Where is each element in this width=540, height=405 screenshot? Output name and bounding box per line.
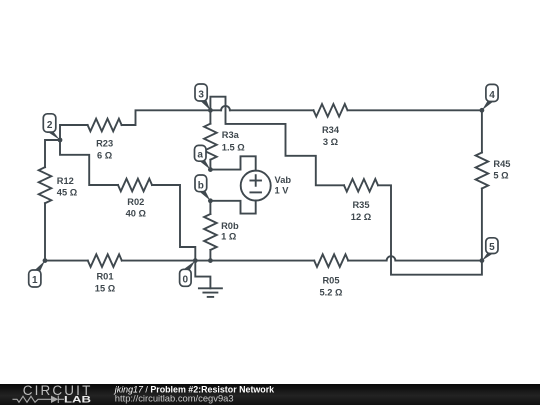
label R23 value (96, 139, 113, 161)
node flag 5 (482, 238, 498, 261)
voltage source Vab (241, 171, 271, 201)
node b junction (208, 198, 213, 203)
node 1 junction (43, 258, 48, 263)
footer bar (0, 384, 540, 405)
resistor R02 (118, 179, 152, 192)
node flag a (195, 145, 211, 169)
wire R05 right to hop (348, 260, 386, 262)
svg-text:1: 1 (32, 275, 38, 286)
wire hop over R35 drop (387, 256, 396, 260)
svg-text:R35: R35 (352, 200, 369, 210)
svg-text:a: a (197, 150, 203, 161)
svg-text:1.5 Ω: 1.5 Ω (222, 142, 246, 152)
node flag 0 (180, 261, 196, 287)
svg-text:5: 5 (489, 242, 495, 253)
resistor R34 (314, 104, 348, 117)
label R05 value (320, 276, 344, 298)
label R01 value (95, 272, 116, 294)
resistor R12 (39, 167, 52, 203)
svg-text:3 Ω: 3 Ω (323, 137, 339, 147)
svg-text:LAB: LAB (64, 395, 91, 405)
resistor R45 (476, 153, 489, 189)
resistor R35 (344, 179, 378, 192)
wire node2 left to R12 top (45, 140, 60, 167)
svg-text:R34: R34 (322, 125, 340, 135)
node flag 4 (482, 84, 498, 110)
svg-text:40 Ω: 40 Ω (126, 208, 147, 218)
label R02 value (126, 197, 147, 218)
node a junction (208, 167, 213, 172)
svg-text:1 Ω: 1 Ω (221, 231, 237, 241)
label R12 value (57, 176, 78, 198)
wire R0b bottom to bottom bus (209, 250, 211, 261)
resistor R01 (88, 254, 122, 267)
wire node2 up to R23 left lead (60, 125, 88, 140)
wire node4 to R45 (481, 110, 483, 152)
svg-text:b: b (198, 180, 204, 191)
svg-text:R45: R45 (493, 159, 510, 169)
node flag b (195, 175, 210, 201)
ground (195, 261, 210, 289)
svg-text:6 Ω: 6 Ω (97, 150, 113, 160)
wire node a to Vab top (210, 156, 255, 170)
svg-text:2: 2 (47, 120, 53, 131)
svg-text:R23: R23 (96, 139, 113, 149)
svg-text:0: 0 (183, 274, 189, 285)
svg-text:5.2 Ω: 5.2 Ω (320, 287, 344, 297)
svg-text:3: 3 (198, 89, 204, 100)
node 5 junction (480, 258, 485, 263)
label R34 value (322, 125, 340, 147)
svg-text:4: 4 (489, 90, 495, 101)
wire node b lead to R0b (209, 201, 211, 214)
wire node2 down to R02 left (60, 140, 118, 185)
node 3 junction (208, 108, 213, 113)
wire R34 to node 4 (348, 109, 482, 111)
svg-text:R0b: R0b (221, 221, 239, 231)
wire R01 to node 0 and R05 (122, 260, 314, 262)
wire R3a bottom to node a (209, 160, 211, 170)
wire node3 stub over bus down to R35 (210, 97, 344, 186)
svg-text:R02: R02 (127, 197, 144, 207)
resistor R3a (204, 124, 217, 160)
wire hop over node3 stub (221, 106, 230, 110)
node 4 junction (480, 108, 485, 113)
node flag 1 (29, 261, 45, 287)
node flag 3 (195, 84, 210, 110)
svg-text:R01: R01 (96, 272, 113, 282)
svg-text:Vab: Vab (275, 175, 292, 185)
wire node3 lead to R3a (209, 110, 211, 123)
svg-text:R05: R05 (322, 276, 339, 286)
svg-text:45 Ω: 45 Ω (57, 188, 78, 198)
wire node1 to R01 (45, 260, 88, 262)
wire hop to node 5 (395, 260, 482, 262)
wire R35 right down around to node 5 (378, 185, 482, 274)
footer logo symbol (13, 396, 65, 403)
resistor R0b (204, 214, 217, 250)
label R3a value (222, 130, 246, 152)
svg-text:1 V: 1 V (275, 185, 290, 195)
wire R12 bottom to node 1 (44, 203, 46, 260)
svg-text:R12: R12 (57, 176, 74, 186)
svg-text:R3a: R3a (222, 130, 240, 140)
resistor R23 (88, 119, 122, 132)
svg-text:12 Ω: 12 Ω (351, 212, 372, 222)
wire hop to R34 (230, 109, 314, 111)
label R0b value (221, 221, 239, 241)
R0b bottom junction (208, 258, 213, 263)
resistor R05 (314, 254, 348, 267)
svg-text:http://circuitlab.com/cegv9a3: http://circuitlab.com/cegv9a3 (115, 392, 234, 403)
label R35 value (351, 200, 372, 222)
wire R02 right down to node 0 (152, 185, 195, 261)
node 2 junction (58, 138, 63, 143)
wire R45 bottom to node 5 (481, 189, 483, 261)
svg-text:5 Ω: 5 Ω (493, 170, 509, 180)
node 0 junction (193, 258, 198, 263)
wire Vab bottom to node b (210, 201, 255, 214)
label R45 value (493, 159, 510, 180)
label Vab value (275, 175, 292, 195)
wire R23 right lead up to top bus (122, 110, 222, 125)
svg-text:15 Ω: 15 Ω (95, 284, 116, 294)
node flag 2 (43, 114, 60, 140)
